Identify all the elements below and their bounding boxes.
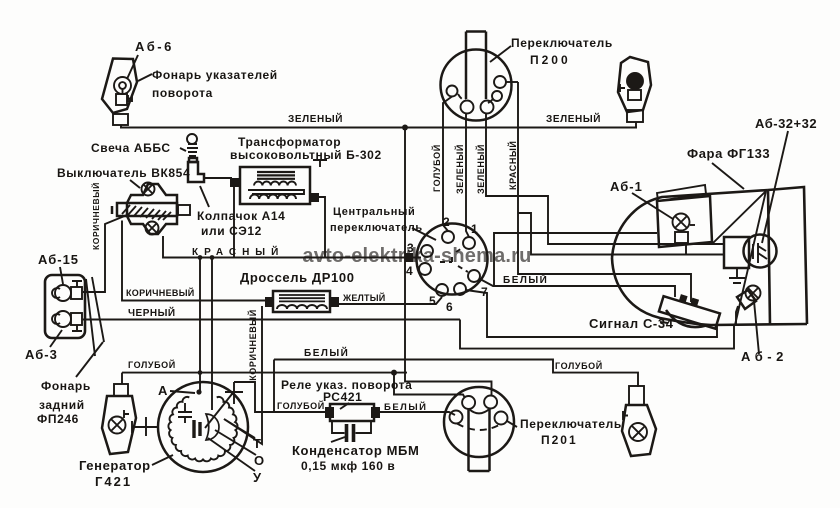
svg-text:Аб-6: Аб-6 [135,39,174,54]
wire P200 red contact stub [505,81,518,83]
svg-text:Выключатель ВК854: Выключатель ВК854 [57,166,190,180]
svg-text:1: 1 [471,222,478,236]
wire brown VK854-left down to rear lamp top bulb [83,215,127,292]
label pin 6 [446,300,453,314]
wire brown choke left terminal down (to generator O terminal) [224,306,262,444]
label Rele ukaz povorota RS421 [281,378,412,409]
svg-text:А: А [158,383,168,398]
svg-text:Переключатель: Переключатель [520,417,622,431]
svg-text:Конденсатор МБМ: Конденсатор МБМ [292,443,419,458]
svg-text:Фара ФГ133: Фара ФГ133 [687,146,770,161]
wire front-left lamp drop [121,373,123,384]
terminal red wire at central switch [405,253,413,262]
label blue wire left [128,359,176,370]
wire P200 green vertical to central switch pin 1 [466,114,469,238]
svg-text:БЕЛЫЙ: БЕЛЫЙ [304,346,349,359]
label Kondensator MBM [292,437,419,473]
label brown vertical rotated [90,182,101,250]
svg-text:ФП246: ФП246 [37,412,79,426]
svg-text:Колпачок А14: Колпачок А14 [197,209,285,223]
wire pilot lamp riser [685,243,687,255]
wire red2 step to headlight main bulb socket [518,213,723,255]
label U terminal [208,438,262,485]
svg-text:КРАСНЫЙ: КРАСНЫЙ [507,141,518,190]
label red wire [192,245,284,258]
svg-text:П201: П201 [541,433,578,447]
svg-text:КОРИЧНЕВЫЙ: КОРИЧНЕВЫЙ [90,182,101,250]
label Transformator vysokovoltnyi B-302 [230,135,382,167]
wire white from pin7 to horn [480,279,675,297]
label Ab-32+32 [755,116,817,243]
wire v200 red to generator terminal A [199,258,201,393]
svg-text:КОРИЧНЕВЫЙ: КОРИЧНЕВЫЙ [247,309,258,381]
svg-text:Генератор: Генератор [79,458,151,473]
svg-text:ЧЕРНЫЙ: ЧЕРНЫЙ [128,306,176,319]
wire white-south from SE corner to bottom-right lamp [274,360,638,388]
generator breaker lever [205,394,232,428]
wire green2 from P200 to headlight socket [486,114,723,245]
wire black rear lamp bottom bulb to SE [83,319,460,321]
wire white-south vertical to relay blue line [273,360,275,413]
small bulb Ab-2 [736,286,761,326]
node blue/v200 [198,370,203,375]
label O terminal [215,430,265,468]
svg-text:БЕЛЫЙ: БЕЛЫЙ [384,401,427,413]
svg-text:высоковольтный Б-302: высоковольтный Б-302 [230,148,382,162]
svg-text:задний: задний [39,398,85,412]
svg-text:ЗЕЛЕНЫЙ: ЗЕЛЕНЫЙ [546,112,601,125]
wire v325 transformer right terminal down to red [319,197,325,258]
wire P200 blue vertical to central switch pin 2 [443,97,452,232]
svg-text:или СЭ12: или СЭ12 [201,224,262,238]
svg-text:5: 5 [429,294,436,308]
wire brown VK854 to choke left terminal [122,221,266,301]
generator internal capacitor [178,403,192,423]
svg-text:Дроссель ДР100: Дроссель ДР100 [240,270,355,285]
bottom-right turn lamp [622,386,656,456]
central switch circle [417,224,488,297]
label Ab-15 [38,252,79,284]
svg-text:Свеча АББС: Свеча АББС [91,141,171,155]
svg-text:Аб-15: Аб-15 [38,252,79,267]
headlight FG133 shell [612,190,807,325]
label A [158,383,195,398]
svg-text:ЗЕЛЕНЫЙ: ЗЕЛЕНЫЙ [475,144,486,194]
svg-text:У: У [253,470,262,485]
turn lamp top-left Ab-6 [102,59,137,128]
label white-south wire [304,346,349,359]
switch VK854 [112,183,190,235]
label Signal S-34 [589,316,674,331]
svg-text:Аб-2: Аб-2 [741,349,788,364]
label yellow wire [342,292,385,303]
svg-text:ГОЛУБОЙ: ГОЛУБОЙ [555,360,603,371]
switch P201 [444,387,517,471]
pilot lamp box Ab-1 [657,185,712,247]
label pin 3 [407,241,414,255]
svg-text:Переключатель: Переключатель [511,36,613,50]
node blue junction [391,370,397,376]
label Vyklyuchatel VK854 [57,166,190,188]
svg-text:ЗЕЛЕНЫЙ: ЗЕЛЕНЫЙ [454,144,465,194]
label Tsentralnyi pereklyuchatel [330,206,436,240]
node red/v200 [198,255,203,260]
label green wire left [288,112,343,125]
svg-text:переключатель: переключатель [330,222,423,234]
label blue wire to rear lamp (right) [555,360,603,371]
choke DR100 [265,291,339,312]
label Generator G421 [79,455,173,489]
svg-text:Фонарь: Фонарь [41,379,91,393]
label Drossel DR100 [240,270,355,285]
node junction green/wire1 [402,125,408,131]
watermark avto-elektrika-shema.ru [302,245,531,267]
label red rotated [507,141,518,190]
svg-text:ГОЛУБОЙ: ГОЛУБОЙ [277,400,325,411]
svg-text:поворота: поворота [152,86,213,100]
label brown vertical mid rotated [247,309,258,381]
label Pereklyuchatel P200 [490,36,613,67]
generator breaker cam [194,414,219,440]
svg-text:ГОЛУБОЙ: ГОЛУБОЙ [128,359,176,370]
svg-text:Г421: Г421 [95,474,132,489]
label white wire (pin7) [503,273,548,286]
svg-text:Аб-1: Аб-1 [610,179,643,194]
label green rotated 1 [454,144,465,194]
wire red-horn from P200 red down to horn [518,82,691,302]
label pin 2 [443,215,450,229]
svg-text:ЗЕЛЕНЫЙ: ЗЕЛЕНЫЙ [288,112,343,125]
spark plug AbbS [187,134,198,162]
svg-text:Центральный: Центральный [333,206,415,218]
label Ab-1 [610,179,673,219]
label Ab-2 [741,301,788,364]
label black wire [128,306,176,319]
label Ab-6 [127,39,174,79]
svg-text:РС421: РС421 [323,390,362,404]
svg-text:КОРИЧНЕВЫЙ: КОРИЧНЕВЫЙ [126,287,195,298]
wire pin6 south to headlight bottom [466,290,717,337]
svg-text:ЖЕЛТЫЙ: ЖЕЛТЫЙ [342,292,385,303]
label Fonar ukazatelei povorota [138,68,278,100]
svg-text:Аб-3: Аб-3 [25,347,58,362]
generator T terminal symbol [225,382,243,404]
label Fara FG133 [687,146,770,189]
label green rotated 2 [475,144,486,194]
svg-text:7: 7 [481,285,488,299]
label Ab-3 [25,330,62,362]
svg-text:Сигнал С-34: Сигнал С-34 [589,316,674,331]
HV cap A14 elbow [188,162,232,182]
svg-text:0,15 мкф 160 в: 0,15 мкф 160 в [301,459,395,473]
wire red horizontal from VK854 to central switch pin 3 [163,236,421,258]
label Fonar zadnii FP246 [37,342,103,426]
horn S-34 [659,289,722,328]
node red/v212 [210,255,215,260]
label blue rotated [431,144,442,192]
rear lamp FP246 body [45,275,104,356]
wire1 from green junction down to P201 top-right contact [405,128,492,397]
node generator terminal A [196,389,201,394]
label brown wire [126,287,195,298]
svg-text:6: 6 [446,300,453,314]
label Kolpachok A14 ili SE12 [197,186,285,238]
label blue wire relay [277,400,325,411]
switch P200 [441,32,512,121]
wire v234 transformer left terminal down to red [233,187,235,258]
headlight rim [768,187,807,325]
wire v212 red to generator breaker [211,258,213,411]
wire pin7 up to pilot lamp Ab-1 [494,233,657,286]
wire yellow choke right terminal to central switch pin 5 [339,297,442,304]
main bulb socket [724,237,749,283]
generator points symbol left [132,417,158,436]
wire green horizontal (turn lamps feed) [120,127,637,129]
svg-text:4: 4 [406,264,413,278]
headlight internal diagonals [713,191,766,325]
svg-text:ГОЛУБОЙ: ГОЛУБОЙ [431,144,442,192]
wire blue from front-left lamp to junction [122,372,407,374]
label green wire right [546,112,601,125]
transformer B-302 box [230,167,319,204]
capacitor MBM [332,421,371,442]
svg-text:П200: П200 [530,53,571,67]
front-left turn lamp [102,384,136,454]
main bulb Ab-32+32 [744,235,777,268]
svg-text:Фонарь указателей: Фонарь указателей [152,68,278,82]
label pin 1 [471,222,478,236]
label Pereklyuchatel P201 [520,417,622,447]
label white wire relay-P201 [384,401,427,413]
label T terminal [224,419,262,451]
svg-text:3: 3 [407,241,414,255]
turn lamp top-right [618,57,651,128]
generator G421 [158,382,248,472]
svg-text:Аб-32+32: Аб-32+32 [755,116,817,131]
svg-text:2: 2 [443,215,450,229]
wire generator T to relay (blue) [234,382,327,412]
wire relay to P201 (white) [379,412,455,415]
label pin 5 [429,294,436,308]
wire black step to headlight bottom [460,320,734,349]
label pin 7 [481,285,488,299]
label Svecha AbbS [91,141,186,155]
svg-text:Трансформатор: Трансформатор [238,135,341,149]
wire2 from blue junction to P201 top-left contact [394,373,465,398]
relay RS421 [325,404,380,421]
svg-text:КРАСНЫЙ: КРАСНЫЙ [192,245,284,258]
label pin 4 [406,264,413,278]
